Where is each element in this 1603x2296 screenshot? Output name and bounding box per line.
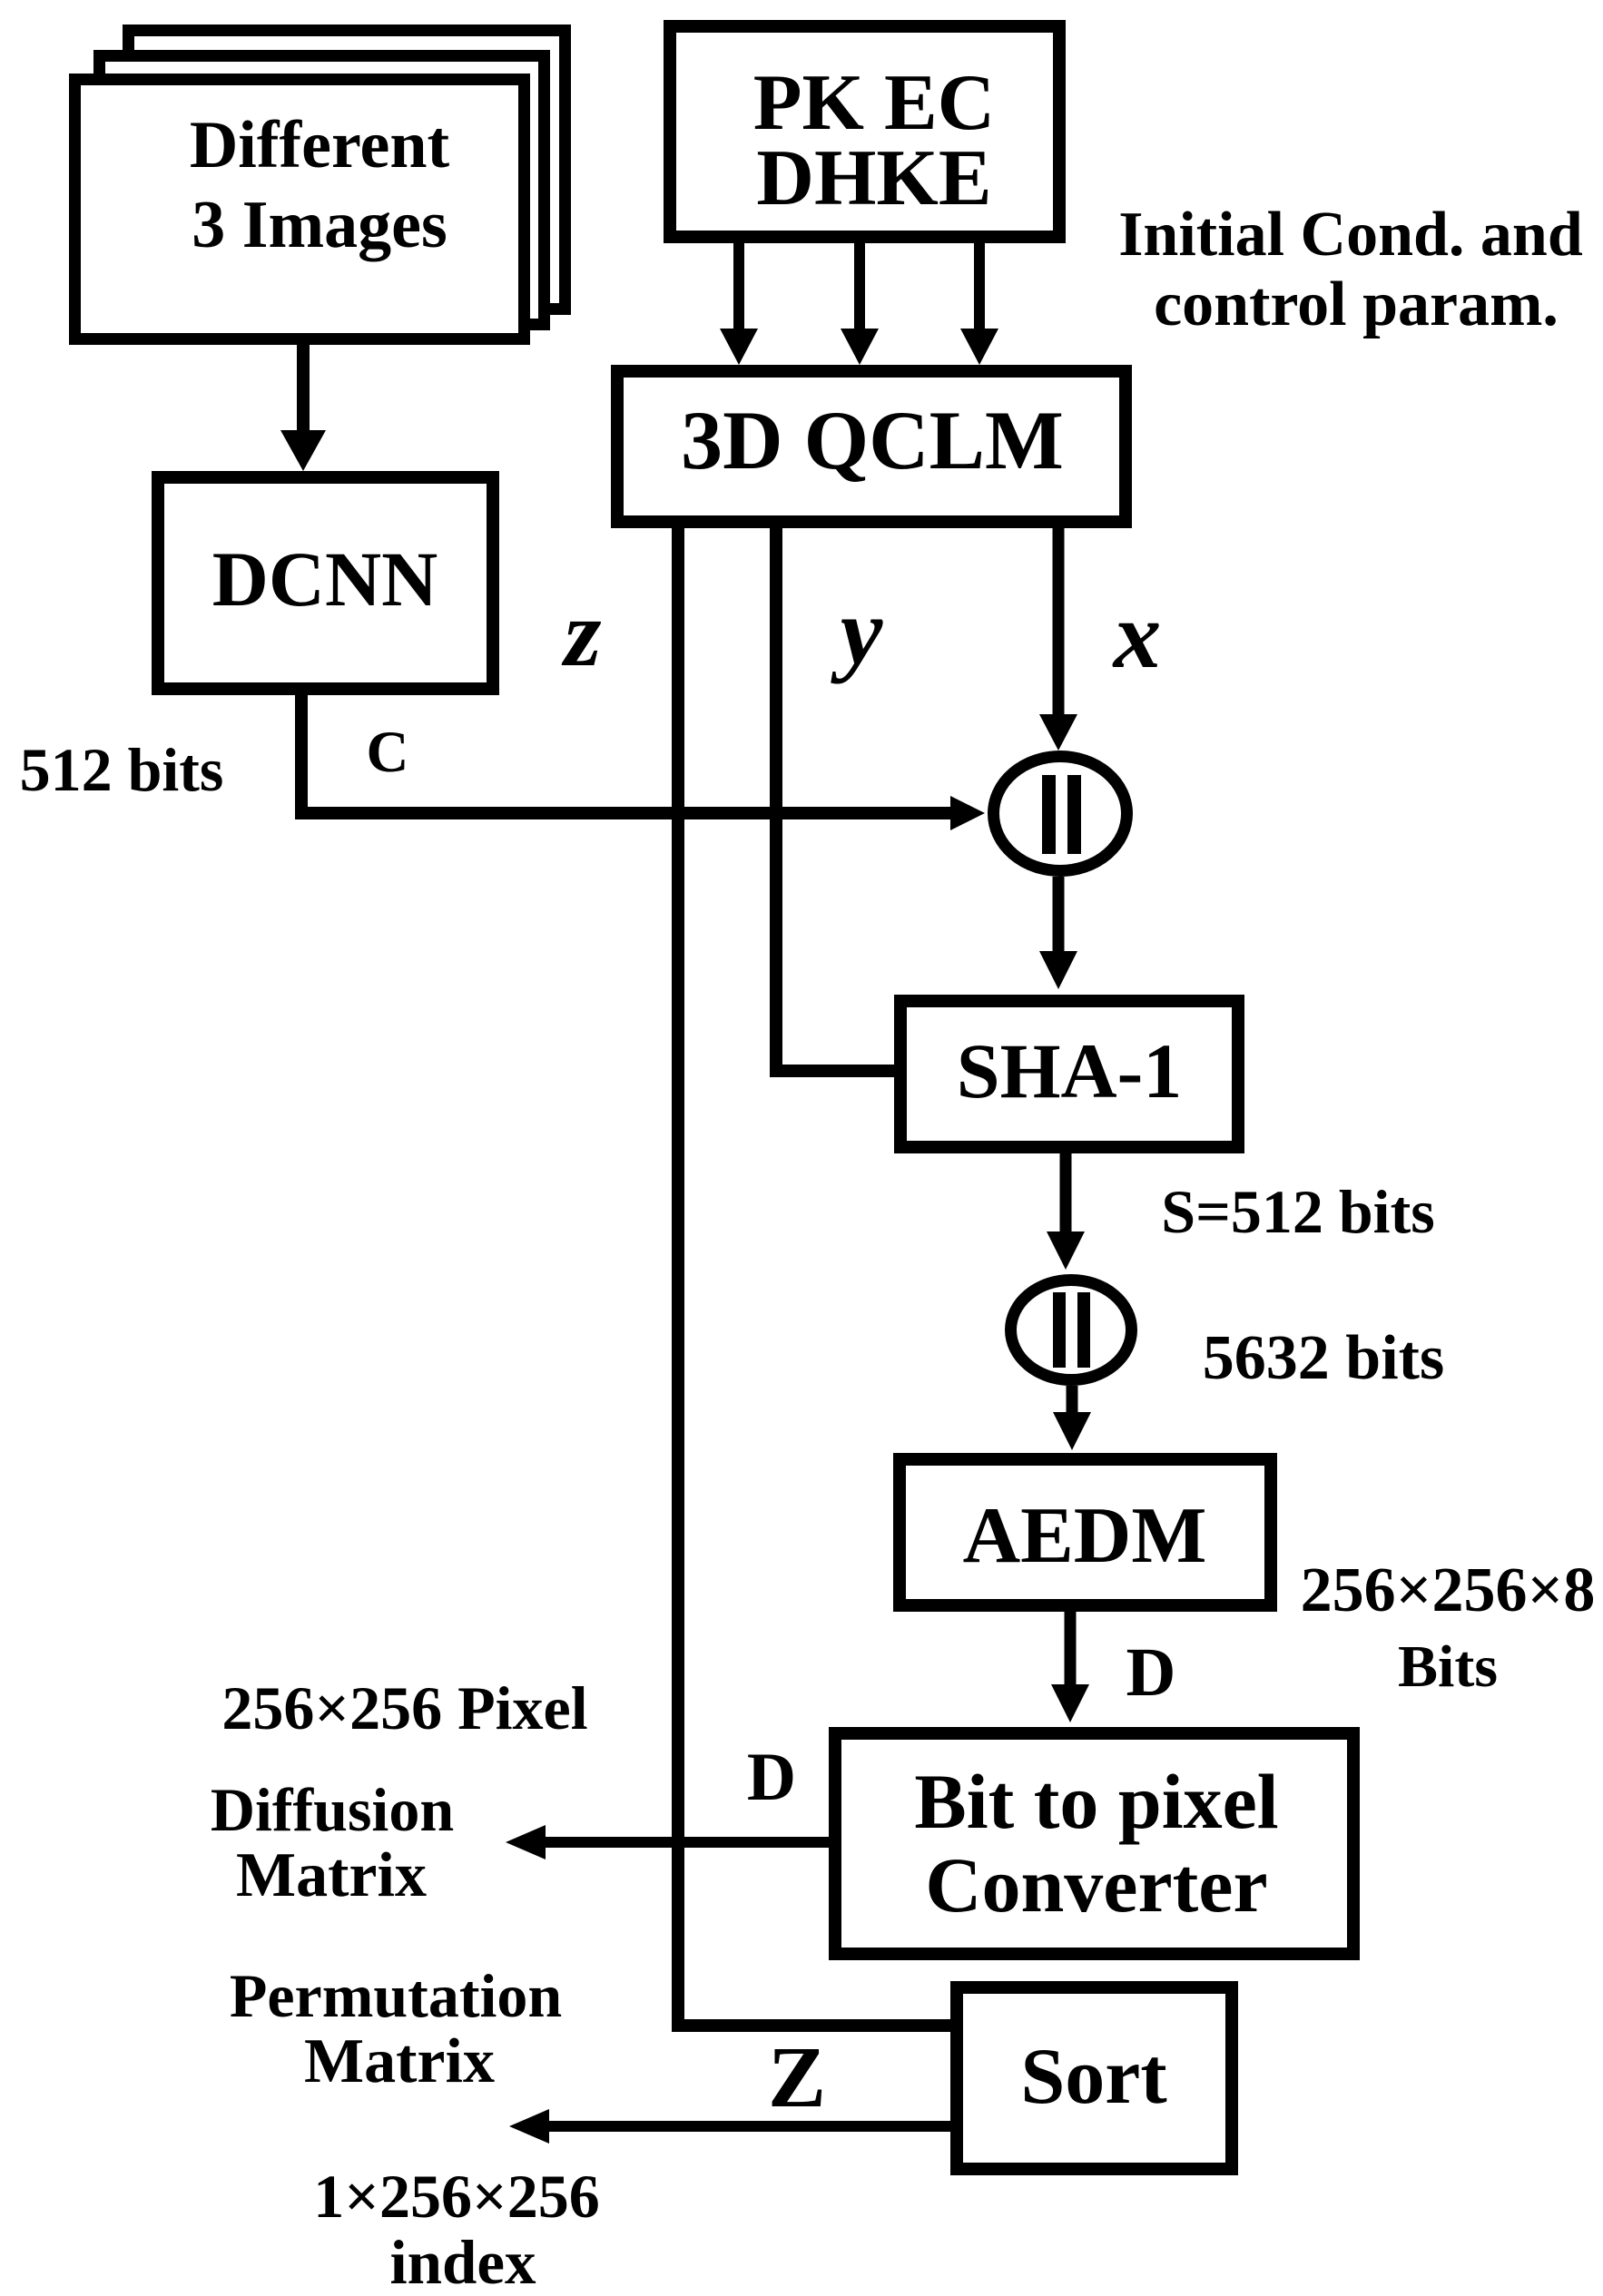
svg-text:Converter: Converter <box>925 1841 1267 1928</box>
svg-text:SHA-1: SHA-1 <box>957 1027 1182 1114</box>
svg-text:Sort: Sort <box>1020 2033 1166 2121</box>
svg-text:256×256×8: 256×256×8 <box>1301 1555 1596 1625</box>
svg-text:D: D <box>747 1740 796 1815</box>
svg-text:S=512 bits: S=512 bits <box>1161 1177 1434 1246</box>
svg-text:256×256 Pixel: 256×256 Pixel <box>221 1673 587 1742</box>
svg-text:Z: Z <box>768 2028 826 2125</box>
svg-text:AEDM: AEDM <box>963 1492 1207 1580</box>
svg-text:DHKE: DHKE <box>756 134 991 222</box>
svg-text:Initial Cond. and: Initial Cond. and <box>1118 200 1583 270</box>
svg-text:512 bits: 512 bits <box>20 735 224 804</box>
svg-text:index: index <box>389 2228 536 2296</box>
svg-text:Matrix: Matrix <box>304 2026 495 2096</box>
svg-text:Different: Different <box>190 108 450 182</box>
svg-text:5632 bits: 5632 bits <box>1203 1323 1444 1393</box>
svg-text:control param.: control param. <box>1154 270 1559 339</box>
svg-text:1×256×256: 1×256×256 <box>313 2162 600 2231</box>
svg-text:z: z <box>562 580 602 686</box>
svg-text:Matrix: Matrix <box>236 1840 427 1910</box>
svg-text:Bits: Bits <box>1398 1634 1498 1700</box>
svg-text:DCNN: DCNN <box>212 535 438 623</box>
svg-text:Bit to pixel: Bit to pixel <box>914 1758 1278 1845</box>
svg-text:3 Images: 3 Images <box>192 188 447 262</box>
svg-text:C: C <box>367 720 409 785</box>
svg-text:3D QCLM: 3D QCLM <box>681 394 1064 486</box>
svg-text:Diffusion: Diffusion <box>211 1775 454 1844</box>
svg-text:D: D <box>1126 1634 1176 1711</box>
svg-text:x: x <box>1112 582 1162 688</box>
svg-text:Permutation: Permutation <box>230 1961 562 2030</box>
